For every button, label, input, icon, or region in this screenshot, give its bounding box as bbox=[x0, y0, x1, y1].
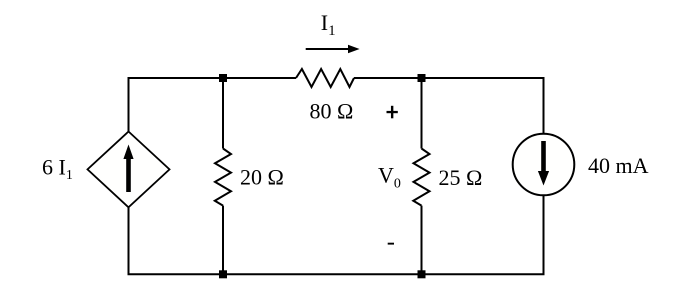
wire 25-ohm branch lower bbox=[421, 206, 423, 275]
label plus sign bbox=[387, 106, 398, 119]
junction node bottom-left (20 ohm / bottom wire) bbox=[219, 270, 227, 278]
independent source arrow down bbox=[538, 141, 549, 186]
wire top-right segment bbox=[354, 77, 544, 79]
resistor 25 ohm zigzag bbox=[413, 149, 429, 206]
resistor 20 ohm zigzag bbox=[215, 149, 231, 206]
svg-text:40 mA: 40 mA bbox=[588, 153, 649, 178]
wire right vertical upper bbox=[543, 77, 545, 133]
wire left vertical lower bbox=[128, 207, 130, 275]
svg-text:V0: V0 bbox=[378, 162, 401, 191]
resistor 80 ohm zigzag bbox=[296, 69, 354, 87]
wire 20-ohm branch lower bbox=[222, 206, 224, 275]
wire bottom segment bbox=[128, 273, 545, 275]
dependent current source diamond bbox=[88, 132, 170, 208]
independent current source circle bbox=[513, 134, 575, 196]
svg-text:80 Ω: 80 Ω bbox=[310, 98, 354, 123]
wire 20-ohm branch upper bbox=[222, 78, 224, 149]
junction node top-right (25 ohm / top wire) bbox=[418, 74, 426, 82]
junction node bottom-right (25 ohm / bottom wire) bbox=[418, 270, 426, 278]
dependent source arrow up bbox=[123, 145, 133, 193]
wire top-left segment bbox=[128, 77, 297, 79]
svg-text:25 Ω: 25 Ω bbox=[439, 165, 483, 190]
label minus sign bbox=[388, 243, 394, 245]
wire 25-ohm branch upper bbox=[421, 78, 423, 149]
svg-text:6 I1: 6 I1 bbox=[42, 154, 73, 183]
current direction arrow I1 bbox=[306, 45, 360, 53]
wire right vertical lower bbox=[543, 196, 545, 275]
wire left vertical upper bbox=[128, 77, 130, 132]
junction node top-left (20 ohm / top wire) bbox=[219, 74, 227, 82]
svg-text:I1: I1 bbox=[321, 10, 336, 39]
svg-text:20 Ω: 20 Ω bbox=[240, 164, 284, 189]
